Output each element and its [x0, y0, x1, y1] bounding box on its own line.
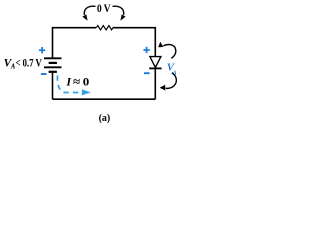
label I ~ 0: [65, 75, 89, 89]
battery E (V_A source) plates: [44, 58, 62, 72]
dashed current arrow I (blue): [57, 76, 90, 96]
battery minus sign (blue): [41, 73, 47, 75]
wire bottom segment: [53, 98, 156, 100]
wire top-right segment: [113, 28, 155, 57]
svg-text:(a): (a): [99, 113, 111, 124]
diode plus sign (blue): [143, 47, 149, 53]
svg-text:≈ 0: ≈ 0: [73, 75, 89, 89]
wire top-left segment: [53, 28, 97, 58]
annotation arrow above V_A (points to diode anode): [158, 42, 176, 59]
annotation arrow below V_A (points to diode cathode): [160, 73, 177, 91]
svg-text:< 0.7 V: < 0.7 V: [16, 58, 43, 70]
label V_A across diode (blue): [167, 62, 178, 77]
annotation arrow right of 0 V: [113, 6, 126, 20]
svg-text:0 V: 0 V: [97, 3, 111, 15]
label V_A < 0.7 V: [4, 57, 43, 71]
battery plus sign (blue): [39, 47, 45, 53]
wire right segment below diode: [154, 68, 156, 99]
resistor R (series, zigzag): [96, 26, 113, 30]
annotation arrow left of 0 V: [82, 6, 95, 20]
diode minus sign (blue): [144, 72, 150, 74]
diode D1 (pointing down): [149, 57, 161, 69]
wire left segment below battery: [52, 72, 54, 99]
